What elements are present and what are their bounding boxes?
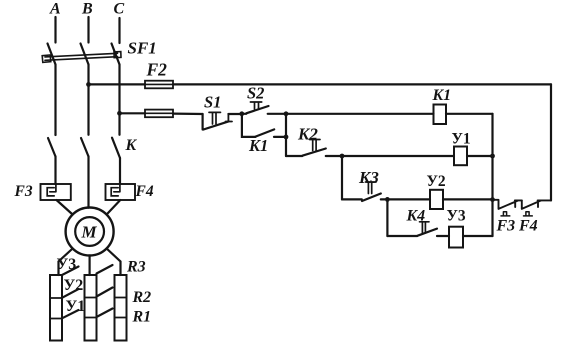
pushbutton S2 (NO start) [242,106,286,114]
pushbutton S1 actuator [209,112,221,124]
label Y3 (coil) [447,208,466,225]
svg-text:У1: У1 [66,298,86,315]
pushbutton S1 right stub and stop tick [226,114,233,122]
svg-text:M: M [81,223,98,242]
relay coil Y2 [430,190,443,209]
wire K2 to Y1 coil [326,155,454,157]
svg-text:F2: F2 [146,60,168,80]
thermal element F4 body [106,184,136,200]
wire phase C lower [119,158,121,184]
label F4 (contact) [518,218,538,235]
svg-text:У3: У3 [447,208,466,225]
wire C tap to fuse F2 lower [120,112,146,114]
contactor K main contact pole B [81,138,89,157]
svg-text:F4: F4 [135,183,154,200]
wire fuse to S1 [173,112,203,115]
wire K3 to Y2 coil [381,198,430,200]
thermal contact F4 release mark [524,212,533,216]
label S1 [204,93,221,112]
contact K3 actuator [366,182,377,194]
pushbutton S2 actuator [250,102,261,109]
wire phase A middle [54,65,56,135]
label S2 [247,84,264,103]
label F2 [146,60,168,80]
wire K4 to Y3 coil [437,235,449,237]
label Y2 (shorting contact) [64,277,84,294]
label F3 (heater) [14,183,33,200]
thermal contact F4 (NC) [522,200,541,209]
label Y3 (shorting contact) [57,256,77,273]
node junction K1 branch right [284,135,289,140]
node junction S2 left [239,111,244,116]
resistor column 2 dividers [85,298,97,318]
svg-text:A: A [49,1,61,18]
svg-text:B: B [81,1,93,18]
relay coil K1 [434,105,447,125]
node junction S2 right [284,111,289,116]
contact Y3 blade right [97,265,113,274]
resistor bank column 2 (middle) [85,275,97,341]
svg-text:K1: K1 [248,136,268,155]
label Y1 (shorting contact) [66,298,86,315]
node tap B to control upper rail [86,82,91,87]
contact K1 aux branch left wire [242,114,256,137]
wire phase C middle [118,65,120,135]
wire phase B middle [87,65,89,135]
switch SF1 bar right end square [114,52,121,58]
label K2 [297,125,318,144]
label R1 [132,309,152,326]
wire phase A top stub [54,17,56,43]
node junction K4 branch top [385,197,390,202]
svg-text:C: C [114,1,125,18]
label K1 (coil) [432,87,452,104]
wire K4 branch vertical [386,199,388,236]
contactor K main contact pole C [112,138,120,158]
wire F4 to motor [107,200,121,215]
label K [125,137,138,154]
wire K3 branch vertical [341,156,343,199]
label K3 [358,168,379,187]
wire Y1 coil to common vertical [467,155,493,157]
wire control upper rail (top) [173,83,551,85]
resistor column 3 dividers [115,298,127,318]
label R3 [126,259,146,276]
svg-text:S1: S1 [204,93,221,112]
wire motor to middle resistor column [88,256,90,276]
wire motor to right resistor column [107,249,121,276]
switch SF1 pole C blade [112,44,120,65]
label Y2 (coil) [427,173,446,190]
wire right rail down [550,84,552,200]
wire phase C top stub [118,18,120,43]
wire F4 to right rail [538,199,551,201]
switch SF1 pole A blade [48,44,56,65]
wire S2 to K1 coil [286,113,434,115]
node junction K3 branch top [340,154,345,159]
svg-text:У1: У1 [452,131,471,148]
thermal element F3 heater hook [47,184,56,196]
svg-text:У3: У3 [57,256,77,273]
wire Y2 coil to common vertical [443,198,493,200]
svg-text:K4: K4 [406,208,426,225]
svg-text:K1: K1 [432,87,452,104]
contact Y2 blade left [62,289,79,298]
svg-text:K: K [125,137,138,154]
fuse F2 upper body [145,81,173,89]
svg-text:У2: У2 [427,173,446,190]
node junction Y2 common [490,197,495,202]
relay coil Y3 [449,227,463,248]
resistor column 1 dividers [50,298,62,319]
svg-text:K3: K3 [358,168,379,187]
svg-text:F3: F3 [14,183,33,200]
node junction Y1 common [490,154,495,159]
contact K2 (NO) [286,149,326,157]
label F3 (contact) [496,218,516,235]
contact K4 actuator [420,222,430,233]
contactor K main contact pole A [48,135,56,157]
svg-text:R1: R1 [132,309,152,326]
thermal element F4 heater hook [111,184,120,196]
node A phase label [49,1,61,18]
svg-text:S2: S2 [247,84,264,103]
thermal contact F3 (NC) [493,200,522,209]
contact K2 actuator [310,140,321,151]
wire phase B lower [87,157,89,208]
wire branch vertical to K2 [285,114,287,156]
node tap C to control lower rail [117,111,122,116]
fuse F2 lower body [145,110,173,118]
motor M inner circle [75,217,104,246]
label R2 [132,289,152,306]
label K4 [406,208,426,225]
label Y1 (coil) [452,131,471,148]
wire B tap to fuse F2 upper [89,83,146,85]
wire coil-common vertical [491,114,493,236]
switch SF1 linkage bar [45,53,118,60]
wire motor to left resistor column [59,249,73,276]
svg-text:R2: R2 [132,289,152,306]
label F4 (heater) [135,183,154,200]
wire Y3 coil to common vertical [463,235,493,237]
contact K4 (NO) [387,229,437,236]
switch SF1 bar left end square [42,55,51,62]
node C phase label [114,1,125,18]
contact Y2 blade right [97,288,113,297]
switch SF1 pole B blade [81,44,89,65]
contact K1 aux blade [256,129,275,136]
svg-text:У2: У2 [64,277,84,294]
contact Y3 blade left [62,267,79,276]
thermal element F3 body [41,184,71,200]
resistor bank column 1 (left) [50,275,62,341]
svg-text:SF1: SF1 [128,39,157,58]
wire F3 to motor [57,200,73,215]
label K1 (aux contact) [248,136,268,155]
svg-text:R3: R3 [126,259,146,276]
svg-text:F4: F4 [518,218,538,235]
svg-text:K2: K2 [297,125,318,144]
wire S1 to S2 [228,113,241,115]
relay coil Y1 [454,147,467,166]
pushbutton S1 (NC stop) [203,114,229,130]
wire phase A lower [54,157,56,185]
thermal contact F3 release mark [501,212,510,216]
fuse F2 upper link line [145,83,173,85]
fuse F2 lower link line [145,112,173,114]
contact K1 aux branch right wire [274,136,286,138]
label SF1 [128,39,157,58]
node B phase label [81,1,93,18]
contact Y1 blade right [97,309,113,318]
resistor bank column 3 (right) [115,275,127,341]
label M [81,223,98,242]
svg-text:F3: F3 [496,218,516,235]
motor M outer circle [66,208,114,256]
contact Y1 blade left [62,310,79,318]
wire phase B top stub [87,17,89,43]
wire K1 coil to right vertical [446,113,493,115]
contact K3 (NO) [342,194,381,202]
